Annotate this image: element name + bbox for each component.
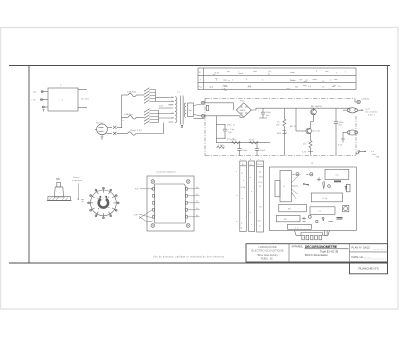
- wire: heater stub: [194, 117, 205, 119]
- board: resistor R near 346,187: [346, 184, 350, 192]
- svg-text:c: c: [258, 159, 259, 161]
- fuse F1 0,5A: [127, 91, 137, 97]
- capacitor C2 100uF: [334, 108, 344, 155]
- svg-text:DATE: LE ..........: DATE: LE ..........: [352, 255, 372, 259]
- svg-text:SELB: SELB: [240, 110, 246, 112]
- resistor R2 emitter: [303, 134, 313, 156]
- board: small comps bottom: [302, 215, 343, 222]
- title block frame: [246, 244, 388, 274]
- board: bottom rect: [288, 224, 312, 229]
- svg-text:C. 2µ: C. 2µ: [322, 198, 328, 200]
- resistor R3 4,7k: [338, 145, 343, 147]
- svg-text:Va. Vers: Va. Vers: [81, 98, 90, 101]
- wire: F2 to bank2: [136, 116, 144, 118]
- wire: top feed: [122, 94, 129, 96]
- bridge rectifier D1 (pont): [236, 100, 251, 118]
- node: block T right lead 1: [78, 89, 87, 91]
- svg-text:AV. 20: AV. 20: [290, 125, 297, 128]
- svg-text:R.S: R.S: [135, 189, 139, 191]
- terminal: AC in b: [202, 114, 205, 117]
- svg-text:4,7kΩ: 4,7kΩ: [231, 139, 237, 141]
- label: strip captions: [240, 159, 259, 161]
- label: Va Vers: [81, 98, 90, 101]
- top-right parts table: [198, 68, 356, 92]
- chain line: shield box top: [205, 98, 355, 100]
- wire: AC b to bridge: [205, 116, 244, 117]
- wire: bank2 to taps: [156, 102, 169, 119]
- svg-text:BOC F Alimentation: BOC F Alimentation: [305, 253, 328, 257]
- svg-text:2µF: 2µF: [228, 132, 232, 134]
- label: regulator annotation: [290, 125, 307, 154]
- title block: laboratoire cell: [251, 245, 283, 260]
- resistor R1 1k (left branch): [276, 108, 286, 126]
- terminal: 0V out: [356, 151, 380, 159]
- title block: planche cell: [358, 266, 378, 270]
- terminal strip A: [240, 161, 247, 232]
- svg-text:130: 130: [171, 113, 174, 115]
- frame bottom border: [9, 262, 388, 264]
- wire: bank1 to tap 245: [156, 97, 169, 99]
- board: side block: [275, 181, 280, 197]
- svg-text:+ 7,5µ: + 7,5µ: [228, 129, 235, 131]
- svg-text:b: b: [250, 159, 251, 161]
- connector SB side view: [47, 177, 72, 201]
- table cell entries (illegible): [209, 71, 337, 90]
- mains plug P (Secteur): [95, 121, 107, 134]
- contacteur pins right: [185, 188, 187, 219]
- wire: left vertical bus: [121, 95, 125, 128]
- chain line: shield box right: [355, 116, 357, 156]
- resistor R6 2,2k: [216, 145, 224, 148]
- rotary switch SW front view: [88, 187, 120, 218]
- svg-text:5Rue Jules Ferrary: 5Rue Jules Ferrary: [257, 254, 278, 257]
- board: fan-out wires: [291, 177, 298, 199]
- board: small comp row top: [293, 173, 347, 191]
- svg-text:0,5A Rad: 0,5A Rad: [127, 91, 137, 94]
- svg-text:S.R: S.R: [134, 215, 138, 217]
- board: mid wide rect: [311, 193, 342, 202]
- fuse F3 chauffage: [128, 130, 143, 135]
- svg-text:100µ: 100µ: [339, 122, 345, 124]
- node: block T right lead 2: [78, 107, 87, 109]
- svg-text:220: 220: [171, 101, 174, 103]
- svg-text:Tr: Tr: [283, 185, 285, 188]
- block T (mains input unit): [48, 85, 78, 111]
- board: transformer block: [280, 171, 291, 202]
- svg-text:110: 110: [171, 118, 174, 120]
- chain line: shield box bottom: [205, 155, 356, 157]
- wire: lower rail: [216, 142, 270, 144]
- board: relay square: [343, 206, 349, 212]
- footer note text: [153, 256, 225, 259]
- secondary terminal box: [188, 103, 194, 117]
- capacitor C3 (filter column): [216, 124, 235, 140]
- svg-text:Vers 10,5/12: Vers 10,5/12: [365, 111, 378, 114]
- svg-text:Pano: Pano: [257, 164, 263, 166]
- contacteur mounting plate: [147, 171, 194, 232]
- svg-text:(+)24Vg: (+)24Vg: [361, 99, 370, 101]
- svg-text:Contacteur Bipolaire: Contacteur Bipolaire: [156, 171, 177, 174]
- terminal: +12V pair: [343, 108, 378, 117]
- ground: plug earth: [101, 135, 104, 140]
- svg-text:4 TR: 4 TR: [241, 187, 246, 189]
- svg-text:2,2kΩ: 2,2kΩ: [218, 145, 224, 147]
- capacitor C5 50uF: [255, 143, 266, 156]
- wire: AC a to bridge: [205, 103, 234, 110]
- svg-text:186: 186: [224, 90, 227, 92]
- wire: secondary to terminal a: [194, 104, 202, 106]
- board: bottom connector comb: [295, 231, 330, 240]
- wire: bridge + output rail: [251, 108, 351, 110]
- node: block T left lead 3: [42, 106, 48, 112]
- wire: bus b vertical: [215, 116, 217, 143]
- frame top border: [9, 65, 390, 67]
- svg-text:DECORSONOMETRE: DECORSONOMETRE: [305, 245, 337, 249]
- terminal: AC in a: [202, 101, 205, 104]
- node: block T left lead 2: [31, 98, 48, 101]
- svg-text:Secteur: Secteur: [96, 121, 104, 124]
- chassis board outline: [270, 163, 357, 231]
- chain line: shield box left: [204, 99, 206, 156]
- switch S1b contact: [107, 132, 128, 135]
- selector bank SV2: [144, 109, 158, 125]
- svg-text:+ Ter: + Ter: [31, 98, 36, 101]
- board: low-left rect: [276, 216, 300, 222]
- zener DZ1: [277, 126, 286, 155]
- svg-text:Chauf. 6,3V: Chauf. 6,3V: [130, 130, 142, 132]
- terminal strip B: [249, 161, 255, 232]
- fuse F2 0,5A: [124, 113, 136, 119]
- resistor R4 4,7k: [231, 139, 241, 144]
- svg-text:50µF: 50µF: [243, 150, 249, 152]
- board: rect C3 top right: [325, 169, 349, 179]
- svg-text:RUEIL . 92 .: RUEIL . 92 .: [261, 257, 274, 260]
- svg-text:50µF: 50µF: [260, 150, 266, 152]
- transformer TR1 primary: [169, 92, 181, 123]
- frame right border: [387, 66, 389, 274]
- svg-text:25µF: 25µF: [266, 112, 272, 114]
- svg-text:APPAREIL: APPAREIL: [292, 246, 304, 249]
- wire: mid feed: [122, 116, 129, 118]
- wire: Q1 base to Q2: [296, 108, 314, 131]
- svg-text:245: 245: [171, 97, 174, 99]
- transformer TR1 secondary: [184, 103, 186, 117]
- frame left border: [28, 66, 30, 264]
- svg-text:BZX: BZX: [277, 133, 282, 135]
- board: mid-low rect: [310, 207, 335, 215]
- terminal: +24V out: [355, 99, 370, 104]
- contacteur pins left: [153, 188, 155, 219]
- svg-text:ELECTRO ACOUSTIQUE: ELECTRO ACOUSTIQUE: [251, 249, 283, 253]
- wire: F1 to bank1: [136, 94, 144, 96]
- svg-text:Vue de dessous, cablage et imp: Vue de dessous, cablage et implantation …: [153, 256, 225, 259]
- svg-text:PLANCHE N°3: PLANCHE N°3: [358, 266, 378, 270]
- node: block T left lead 1: [33, 91, 48, 94]
- svg-text:1Ω: 1Ω: [303, 144, 306, 146]
- contacteur left leads: [134, 188, 153, 222]
- svg-text:Type E H D 35: Type E H D 35: [320, 249, 339, 253]
- svg-text:S6: S6: [56, 177, 60, 181]
- svg-text:Percer: Percer: [73, 176, 80, 179]
- strip side marks: [236, 171, 239, 223]
- capacitor C4 50uF: [237, 143, 248, 156]
- switch S1a contact: [107, 126, 121, 129]
- title block: appareil cell: [292, 245, 349, 257]
- svg-text:BC 140: BC 140: [313, 131, 321, 133]
- svg-text:6,3V. 1: 6,3V. 1: [368, 114, 376, 116]
- transformer TR1 core: [181, 96, 183, 128]
- contacteur right labels: [196, 187, 199, 217]
- wire: Q1 collector riser: [313, 108, 315, 109]
- svg-text:Tr: Tr: [241, 172, 243, 175]
- svg-text:250v. 2f: 250v. 2f: [227, 125, 235, 127]
- transistor Q2 BC140: [304, 128, 321, 134]
- wire: bank1 bus: [155, 90, 157, 102]
- capacitor C1 25uF: [258, 108, 271, 118]
- terminal strip C: [257, 161, 264, 232]
- resistor R5 10k: [249, 139, 259, 144]
- transistor Q1 BD438: [311, 106, 323, 115]
- title block: plan cell: [352, 246, 387, 259]
- label: S.R.: [159, 106, 163, 108]
- svg-text:vu de face: vu de face: [72, 180, 83, 182]
- svg-text:PLAN N° 10022: PLAN N° 10022: [352, 246, 371, 250]
- svg-text:S.R: S.R: [159, 106, 163, 108]
- resistor: inrush limiter: [206, 105, 208, 110]
- board: left mid rect: [279, 204, 307, 212]
- wire: bank2 bus: [158, 111, 160, 123]
- svg-text:BD 438/TR: BD 438/TR: [311, 106, 322, 108]
- svg-text:Pont: Pont: [240, 100, 245, 103]
- svg-text:10 kΩ: 10 kΩ: [249, 139, 255, 141]
- terminal: regulated pair 2: [341, 130, 358, 143]
- selector bank SV1: [144, 88, 155, 104]
- label: vue de face note: [72, 176, 84, 201]
- wire: F3 run to transformer: [136, 123, 164, 134]
- wire: secondary to terminal b: [194, 115, 202, 117]
- contacteur right leads: [187, 189, 199, 217]
- svg-text:0,5A Bas: 0,5A Bas: [124, 113, 134, 116]
